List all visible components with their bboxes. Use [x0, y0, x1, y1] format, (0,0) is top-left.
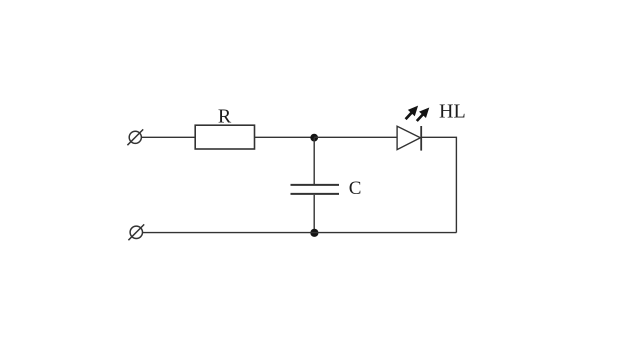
wire: top terminal to resistor R: [141, 136, 195, 138]
terminal X1 (top input): [127, 129, 143, 145]
svg-text:C: C: [349, 178, 362, 199]
LED HL: [397, 100, 466, 150]
terminal X2 (bottom input): [128, 224, 144, 240]
svg-text:HL: HL: [439, 100, 466, 122]
capacitor C: [291, 138, 362, 233]
resistor R: [195, 106, 254, 150]
wire: node A to LED anode: [314, 136, 397, 138]
node B (bottom junction dot): [310, 229, 318, 237]
wire: LED cathode to right corner and down: [421, 137, 456, 232]
wire: bottom rail: [143, 232, 457, 234]
svg-text:R: R: [218, 106, 232, 128]
wire: resistor R to node A: [255, 136, 315, 138]
node A (top junction dot): [310, 134, 318, 142]
